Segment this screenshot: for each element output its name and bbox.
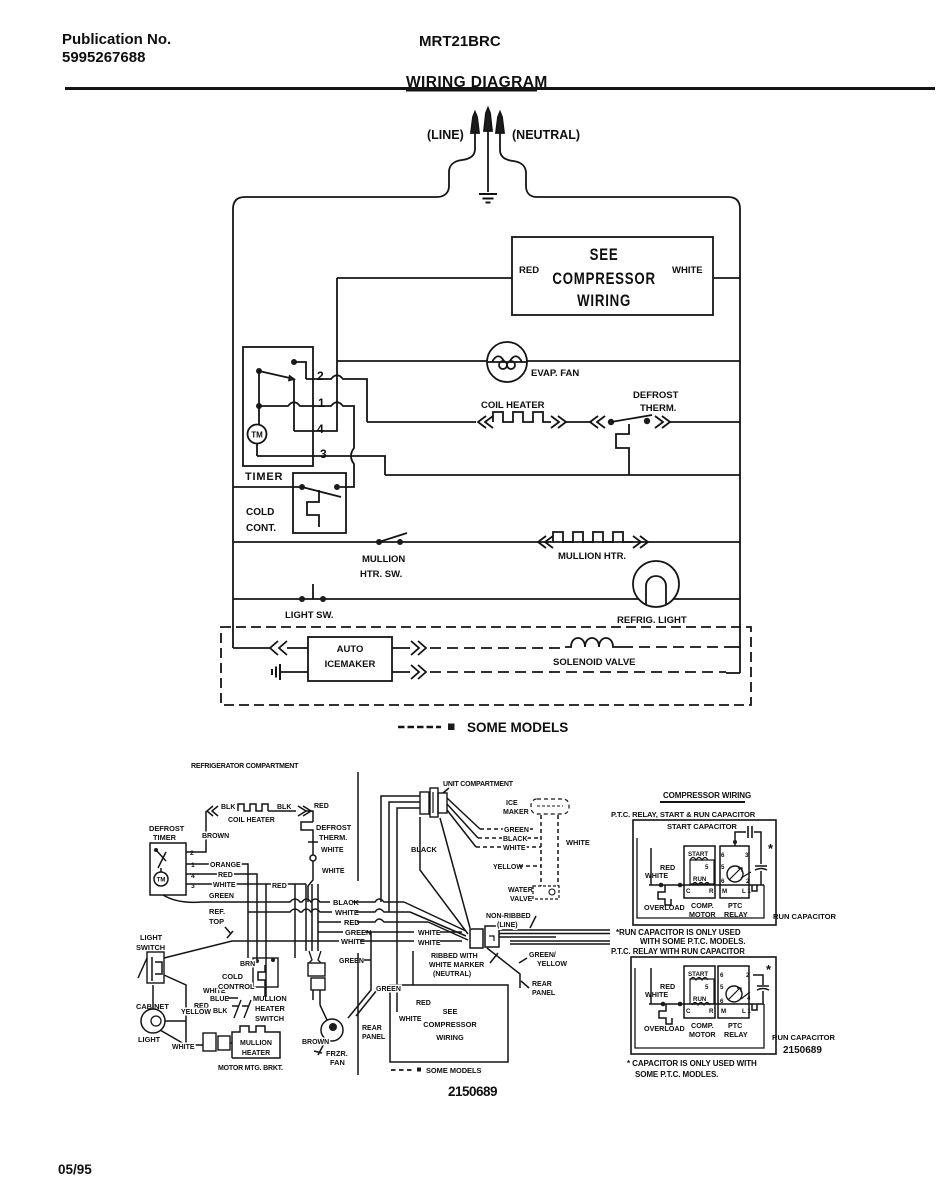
dashed riser icemaker left — [540, 815, 542, 886]
wire: terminal 1 orange row — [186, 864, 248, 958]
wire: dot A to terminal 2 row — [294, 362, 306, 379]
wire: evap fan row — [337, 360, 740, 362]
svg-text:BLUE: BLUE — [210, 996, 229, 1003]
svg-text:WHITE: WHITE — [566, 838, 590, 847]
overload protector box1 — [658, 885, 671, 905]
wire: supply drop box1 — [650, 848, 652, 885]
heater: coil heater element — [493, 412, 551, 422]
svg-text:2: 2 — [746, 878, 750, 885]
svg-text:2: 2 — [746, 972, 750, 979]
svg-text:PTC: PTC — [728, 901, 742, 910]
svg-text:NON-RIBBED: NON-RIBBED — [486, 913, 531, 920]
svg-text:LIGHT: LIGHT — [140, 933, 163, 942]
node dots box2 — [661, 1002, 666, 1007]
svg-text:05/95: 05/95 — [58, 1162, 92, 1177]
ptc disc box1 — [727, 866, 743, 882]
plug prong LINE — [471, 112, 479, 133]
svg-text:SOME P.T.C. MODLES.: SOME P.T.C. MODLES. — [635, 1070, 718, 1079]
svg-text:BLK: BLK — [221, 804, 235, 811]
svg-text:COLD: COLD — [222, 972, 244, 981]
svg-text:TIMER: TIMER — [153, 833, 177, 842]
lamp: refrigerator light — [633, 561, 679, 607]
wire: defrost therm to right rail — [670, 421, 740, 423]
label COMP. MOTOR box1 — [689, 901, 716, 919]
wire: terminal 3 row — [257, 456, 385, 475]
svg-text:RED: RED — [218, 872, 233, 879]
wire: white lead from compressor box to right rail — [713, 277, 740, 279]
node: timer dot A — [291, 359, 297, 365]
svg-text:CONTROL: CONTROL — [218, 982, 255, 991]
ptc disc box2 — [726, 986, 742, 1002]
label REF. TOP — [209, 907, 225, 926]
svg-text:5: 5 — [705, 864, 709, 871]
dashed wire BLACK to icemaker — [478, 837, 541, 839]
svg-text:PTC: PTC — [728, 1021, 742, 1030]
wire: timer bottom swoosh — [163, 895, 248, 902]
svg-text:WATER: WATER — [508, 887, 533, 894]
label DEFROST THERM. — [633, 390, 679, 414]
run winding coil box1 — [692, 883, 710, 886]
wire: main row box2 — [649, 1003, 764, 1005]
svg-text:M: M — [722, 888, 727, 895]
svg-text:(LINE): (LINE) — [497, 922, 518, 929]
connector chevrons coil heater left — [478, 416, 493, 428]
svg-text:SWITCH: SWITCH — [136, 943, 165, 952]
dashed wire GREEN to icemaker — [480, 828, 535, 830]
node: timer dot C — [256, 403, 262, 409]
svg-text:TOP: TOP — [209, 917, 224, 926]
svg-text:SEE: SEE — [590, 246, 619, 265]
wire: dot B down to terminal 1 row — [258, 371, 260, 406]
wire: white lead — [396, 951, 398, 1012]
wire: coil heater row lead — [367, 421, 476, 423]
connector: freezer fan leads — [309, 951, 321, 963]
hook L1 box2 — [752, 1004, 757, 1010]
svg-text:5995267688: 5995267688 — [62, 49, 145, 66]
wire: cabinet light to switch — [152, 985, 154, 1009]
connector chevrons icemaker left — [270, 641, 287, 655]
svg-text:WHITE: WHITE — [321, 847, 344, 854]
timer switch arm B — [259, 371, 292, 379]
wire: light row — [233, 598, 740, 600]
label COLD CONTROL — [218, 972, 255, 991]
header: publication no — [62, 31, 171, 66]
label DEFROST THERM. (lower diag) — [316, 823, 352, 842]
wire: drop at 295 — [294, 884, 296, 958]
wire: red lead into box — [412, 951, 414, 985]
svg-text:WHITE: WHITE — [418, 940, 441, 947]
svg-text:ICEMAKER: ICEMAKER — [325, 659, 376, 670]
svg-text:6: 6 — [720, 998, 724, 1005]
svg-text:THERM.: THERM. — [319, 833, 347, 842]
defrost thermostat contacts — [608, 419, 614, 425]
svg-text:LIGHT: LIGHT — [138, 1035, 161, 1044]
svg-text:RELAY: RELAY — [724, 1030, 748, 1039]
connector: mullion heater plug — [203, 1033, 216, 1051]
wire: neutral prong lead-in to main box top — [500, 132, 537, 197]
svg-text:C: C — [686, 888, 691, 895]
box: PTC relay with start and run capacitor — [633, 820, 776, 925]
svg-text:BLACK: BLACK — [333, 898, 360, 907]
plug prong NEUTRAL — [496, 112, 504, 133]
svg-text:RUN CAPACITOR: RUN CAPACITOR — [773, 912, 837, 921]
svg-text:OVERLOAD: OVERLOAD — [644, 903, 685, 912]
svg-text:SEE: SEE — [443, 1007, 458, 1016]
svg-text:BLK: BLK — [213, 1008, 227, 1015]
wire: drop at 306 — [305, 884, 307, 951]
svg-text:RELAY: RELAY — [724, 910, 748, 919]
svg-text:LIGHT SW.: LIGHT SW. — [285, 610, 334, 621]
svg-text:TIMER: TIMER — [245, 471, 283, 483]
svg-text:FAN: FAN — [330, 1058, 345, 1067]
svg-text:EVAP. FAN: EVAP. FAN — [531, 368, 579, 379]
label COLD CONT. — [246, 507, 276, 534]
svg-text:MRT21BRC: MRT21BRC — [419, 33, 501, 50]
wire: icemaker ground row — [280, 671, 308, 673]
svg-text:REAR: REAR — [532, 981, 552, 988]
svg-text:MULLION: MULLION — [253, 994, 287, 1003]
svg-text:VALVE: VALVE — [510, 896, 533, 903]
wire: left rail to cold control — [233, 486, 302, 488]
svg-text:SOME MODELS: SOME MODELS — [467, 720, 568, 735]
wire: terminal 3 white row — [186, 883, 306, 885]
light switch — [299, 596, 305, 602]
svg-text:5: 5 — [705, 984, 709, 991]
svg-text:4: 4 — [317, 422, 324, 436]
label REAR PANEL (right) — [532, 981, 556, 997]
svg-text:2150689: 2150689 — [448, 1084, 497, 1099]
svg-text:3: 3 — [320, 447, 327, 461]
svg-text:*: * — [766, 962, 772, 977]
run winding coil box2 — [692, 1003, 710, 1006]
svg-text:REF.: REF. — [209, 907, 225, 916]
svg-text:REFRIGERATOR COMPARTMENT: REFRIGERATOR COMPARTMENT — [191, 763, 299, 770]
dashed wire solenoid to right rail — [622, 646, 726, 648]
coil: solenoid valve — [565, 638, 622, 647]
wire: TM motor leads — [257, 406, 259, 456]
svg-text:HEATER: HEATER — [255, 1004, 285, 1013]
svg-text:2: 2 — [317, 369, 324, 383]
wire: drops to freezer fan plug — [312, 884, 318, 951]
svg-text:COMPRESSOR: COMPRESSOR — [423, 1020, 477, 1029]
svg-text:MOTOR: MOTOR — [689, 1030, 716, 1039]
cold control (lower) — [253, 958, 278, 987]
mullion heater switch symbol — [232, 1000, 251, 1018]
note: capacitor only used — [627, 1059, 757, 1079]
svg-text:SWITCH: SWITCH — [255, 1014, 284, 1023]
svg-text:COIL HEATER: COIL HEATER — [228, 817, 275, 824]
svg-text:COMP.: COMP. — [691, 901, 714, 910]
label GREEN/ YELLOW — [529, 952, 567, 968]
svg-text:(NEUTRAL): (NEUTRAL) — [433, 971, 471, 978]
svg-text:6: 6 — [720, 972, 724, 979]
connector: unit compartment plug — [420, 792, 429, 814]
lamp: cabinet light — [141, 1009, 165, 1033]
wire: ground prong drop — [487, 131, 489, 192]
wire: red riser down to timer terminal 4 row — [294, 278, 337, 431]
svg-text:RED: RED — [272, 883, 287, 890]
box: auto icemaker — [308, 637, 392, 681]
svg-text:R: R — [709, 888, 714, 895]
wires: plug leads left and down — [381, 796, 420, 902]
wire: cabinet light to connector — [160, 1021, 203, 1045]
inner margin lines box2 — [635, 968, 764, 1048]
svg-text:RED: RED — [416, 1000, 431, 1007]
start winding coil box2 — [690, 978, 708, 981]
svg-text:WHITE: WHITE — [213, 882, 236, 889]
svg-text:GREEN: GREEN — [209, 893, 234, 900]
wire: down defrost thermostat — [306, 811, 313, 822]
bus row GREEN — [318, 931, 462, 933]
wire to defrost therm corner — [268, 810, 296, 812]
ground symbol — [479, 194, 497, 203]
cold control sensor staircase — [307, 490, 319, 527]
main box outline (supply rails) — [233, 197, 740, 673]
dashed box: some models option — [221, 627, 751, 705]
svg-text:REAR: REAR — [362, 1025, 382, 1032]
svg-text:WHITE: WHITE — [418, 930, 441, 937]
svg-text:RIBBED WITH: RIBBED WITH — [431, 953, 478, 960]
svg-text:WIRING: WIRING — [436, 1033, 464, 1042]
svg-text:PANEL: PANEL — [362, 1034, 386, 1041]
label WATER VALVE — [508, 887, 533, 903]
svg-text:*RUN CAPACITOR IS ONLY USED: *RUN CAPACITOR IS ONLY USED — [616, 928, 741, 937]
svg-text:UNIT COMPARTMENT: UNIT COMPARTMENT — [443, 781, 514, 788]
label PTC RELAY box2 — [724, 1021, 748, 1039]
label COMP. MOTOR box2 — [689, 1021, 716, 1039]
heater: mullion heater (lower) — [232, 1026, 280, 1058]
box: PTC relay with run capacitor — [631, 957, 776, 1054]
svg-text:SOME MODELS: SOME MODELS — [426, 1066, 482, 1075]
svg-text:WHITE: WHITE — [399, 1016, 422, 1023]
svg-text:MAKER: MAKER — [503, 809, 529, 816]
svg-text:REFRIG. LIGHT: REFRIG. LIGHT — [617, 615, 687, 626]
svg-text:MOTOR MTG. BRKT.: MOTOR MTG. BRKT. — [218, 1065, 283, 1072]
light switch symbol — [147, 952, 164, 983]
svg-text:BROWN: BROWN — [202, 833, 229, 840]
bus row WHITE — [248, 909, 410, 912]
dashed riser icemaker right — [557, 815, 559, 886]
heater: coil heater element (lower diag) — [238, 804, 268, 811]
svg-text:1: 1 — [318, 396, 325, 410]
svg-text:WHITE: WHITE — [322, 868, 345, 875]
defrost timer box — [149, 824, 185, 842]
svg-text:2: 2 — [190, 850, 194, 857]
svg-text:MULLION HTR.: MULLION HTR. — [558, 551, 626, 562]
svg-text:5: 5 — [721, 864, 725, 871]
label MULLION HTR. SW. — [360, 554, 405, 580]
box: ptc relay box1 — [720, 846, 749, 898]
connector chevrons mullion heater left — [538, 536, 553, 548]
wire: terminal 2 lead up to coil heater loop — [186, 811, 206, 852]
svg-text:3: 3 — [745, 852, 749, 859]
svg-text:TM: TM — [251, 431, 263, 440]
label FRZR. FAN — [326, 1049, 348, 1067]
svg-text:YELLOW: YELLOW — [493, 864, 523, 871]
motor: timer motor TM — [248, 425, 267, 444]
svg-text:WHITE: WHITE — [341, 937, 365, 946]
svg-text:BRN: BRN — [240, 961, 255, 968]
svg-text:GREEN/: GREEN/ — [529, 952, 556, 959]
wire: terminal 1 row with hops, down to cold control — [259, 402, 354, 487]
ground: icemaker chassis ground — [272, 664, 280, 680]
box: SEE COMPRESSOR WIRING — [512, 237, 713, 315]
svg-text:6: 6 — [721, 878, 725, 885]
label REAR PANEL (left) — [362, 1025, 386, 1041]
svg-text:COMPRESSOR: COMPRESSOR — [552, 270, 656, 289]
cold control box — [293, 473, 346, 533]
timer box — [243, 347, 313, 466]
wire: icemaker row from left rail — [233, 647, 270, 649]
legend 2: some models — [391, 1069, 413, 1071]
svg-text:HTR. SW.: HTR. SW. — [360, 569, 402, 580]
defrost thermostat staircase (lower diag) — [301, 822, 318, 842]
node dots box1 — [659, 883, 664, 888]
svg-text:RED: RED — [314, 803, 329, 810]
svg-text:WHITE: WHITE — [672, 265, 703, 276]
wires: plug to icemaker dashed rows — [447, 798, 480, 847]
dashed wire to solenoid — [430, 647, 565, 649]
svg-text:5: 5 — [720, 984, 724, 991]
svg-text:BLACK: BLACK — [503, 836, 528, 843]
wire: white drop to bus — [308, 861, 313, 902]
wire: row at 475 from terminal 3 drop to right rail — [385, 474, 740, 476]
svg-text:GREEN: GREEN — [504, 827, 529, 834]
svg-text:WHITE: WHITE — [335, 908, 359, 917]
svg-text:2150689: 2150689 — [783, 1045, 822, 1056]
motor: freezer fan — [321, 1019, 343, 1041]
svg-text:YELLOW: YELLOW — [181, 1009, 211, 1016]
bus row RED — [318, 919, 428, 922]
inner margin lines box1 — [637, 838, 764, 918]
node: timer dot B — [256, 368, 262, 374]
svg-text:AUTO: AUTO — [337, 644, 364, 655]
svg-text:WHITE: WHITE — [503, 845, 526, 852]
svg-text:L 1: L 1 — [742, 888, 751, 895]
connector chevrons defrost right — [655, 416, 670, 428]
svg-text:THERM.: THERM. — [640, 403, 676, 414]
wire: mullion row — [233, 541, 740, 543]
connector chevrons icemaker right row2 — [392, 665, 426, 679]
start winding coil box1 — [690, 858, 708, 861]
wire: light switch to white bus — [164, 941, 320, 958]
label PTC RELAY box1 — [724, 901, 748, 919]
bus row WHITE2 — [320, 940, 462, 942]
svg-text:RED: RED — [344, 918, 360, 927]
svg-text:COLD: COLD — [246, 507, 274, 518]
plug prong ground (center) — [484, 108, 492, 131]
run capacitor box2 — [753, 975, 769, 990]
bus row BLACK — [248, 899, 404, 902]
svg-text:WITH SOME P.T.C. MODELS.: WITH SOME P.T.C. MODELS. — [640, 937, 745, 946]
wires: terminal block exits right — [499, 930, 610, 937]
connector chevrons mullion heater right — [633, 536, 648, 548]
svg-text:*: * — [768, 841, 774, 856]
svg-text:COMPRESSOR WIRING: COMPRESSOR WIRING — [663, 791, 751, 800]
svg-text:PANEL: PANEL — [532, 990, 556, 997]
wire: drop at 266 — [265, 884, 267, 997]
overload protector box2 — [659, 1004, 672, 1024]
svg-text:FRZR.: FRZR. — [326, 1049, 348, 1058]
wire: red lead from compressor box to red riser — [337, 277, 512, 279]
diagonals from plug to terminal block — [420, 817, 468, 934]
svg-text:P.T.C. RELAY, START & RUN CAPA: P.T.C. RELAY, START & RUN CAPACITOR — [611, 810, 756, 819]
header rule — [65, 87, 935, 90]
connector: inline splice — [312, 842, 314, 855]
svg-text:R: R — [709, 1008, 714, 1015]
wire: arrow point riser to terminal 4 row — [293, 380, 295, 432]
wire: line prong lead-in to main box top — [437, 132, 475, 197]
svg-text:MULLION: MULLION — [240, 1040, 272, 1047]
wire: terminal 2 row with hop over red riser — [306, 375, 367, 422]
dashed wire row2 to right rail — [430, 671, 726, 673]
box: see compressor wiring (lower) — [390, 985, 508, 1062]
svg-text:6: 6 — [721, 852, 725, 859]
svg-text:RED: RED — [519, 265, 539, 276]
svg-text:GREEN: GREEN — [345, 928, 371, 937]
labels timer terminals — [190, 850, 195, 890]
svg-text:GREEN: GREEN — [339, 958, 364, 965]
svg-text:OVERLOAD: OVERLOAD — [644, 1024, 685, 1033]
svg-text:WIRING: WIRING — [577, 292, 631, 311]
connector chevrons icemaker right row1 — [392, 641, 426, 655]
connector chevron coil heater left (lower diag) — [207, 806, 218, 816]
svg-text:4: 4 — [747, 995, 751, 1002]
motor: evaporator fan — [487, 342, 527, 382]
hook L1 box1 — [752, 885, 757, 891]
label ICE MAKER — [503, 800, 529, 816]
svg-text:ORANGE: ORANGE — [210, 862, 241, 869]
mullion heater switch — [376, 539, 382, 545]
icemaker outline (dashed) — [531, 799, 569, 814]
box: comp motor box2 — [684, 966, 715, 1018]
svg-text:MULLION: MULLION — [362, 554, 405, 565]
box: ptc relay box2 — [718, 966, 749, 1018]
svg-text:TM: TM — [157, 878, 166, 884]
wire: supply drop box2 — [650, 968, 652, 1004]
svg-text:ICE: ICE — [506, 800, 518, 807]
motor: defrost timer TM — [154, 872, 168, 886]
svg-text:WHITE: WHITE — [645, 990, 668, 999]
svg-text:WHITE: WHITE — [645, 871, 668, 880]
run capacitor box1 — [755, 866, 767, 870]
svg-text:Publication No.: Publication No. — [62, 31, 171, 48]
svg-text:BLK: BLK — [277, 804, 291, 811]
svg-text:BROWN: BROWN — [302, 1039, 329, 1046]
heater: mullion heater element — [553, 532, 633, 542]
svg-text:WHITE: WHITE — [172, 1044, 195, 1051]
svg-text:* CAPACITOR IS ONLY USED WITH: * CAPACITOR IS ONLY USED WITH — [627, 1059, 757, 1068]
svg-text:DEFROST: DEFROST — [633, 390, 679, 401]
svg-text:C: C — [686, 1008, 691, 1015]
svg-text:WHITE MARKER: WHITE MARKER — [429, 962, 484, 969]
dashed wire WHITE to icemaker — [476, 846, 541, 848]
label RIBBED WITH WHITE MARKER (NEUTRAL) — [429, 953, 484, 978]
svg-text:HEATER: HEATER — [242, 1050, 270, 1057]
label LIGHT SWITCH — [136, 933, 165, 952]
svg-text:YELLOW: YELLOW — [537, 961, 567, 968]
connector chevrons coil heater right — [551, 416, 566, 428]
svg-text:(LINE): (LINE) — [427, 128, 464, 142]
connector chevrons defrost left — [590, 416, 605, 428]
svg-text:BLACK: BLACK — [411, 845, 438, 854]
svg-text:M: M — [721, 1008, 726, 1015]
label NON-RIBBED (LINE) — [486, 913, 531, 929]
svg-text:DEFROST: DEFROST — [149, 824, 185, 833]
svg-text:MOTOR: MOTOR — [689, 910, 716, 919]
legend: dashed = some models — [398, 726, 441, 729]
wire: coil heater to defrost therm — [566, 421, 592, 423]
